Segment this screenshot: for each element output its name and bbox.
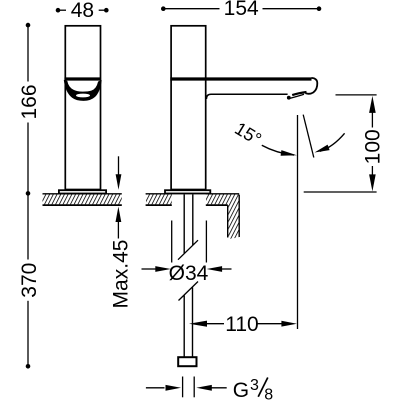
front view base plate [59, 190, 106, 193]
15 degree detail vertical line [297, 115, 299, 329]
svg-text:370: 370 [18, 263, 41, 298]
15 degree left leader arrow [262, 145, 294, 155]
side view countertop hatch right L [206, 194, 239, 239]
svg-text:3: 3 [250, 377, 259, 394]
front view spout bowl highlight [76, 94, 90, 98]
supply pipe upper [183, 194, 185, 253]
front view spout band [64, 77, 101, 80]
supply hose lower [183, 295, 185, 357]
front view countertop hatch [43, 194, 122, 204]
dimension G 3/8 ticks [182, 377, 184, 398]
svg-text:100: 100 [362, 129, 385, 164]
dimension 154 [161, 6, 166, 11]
side view aerator leaf [292, 92, 306, 95]
side view spout tip [305, 78, 317, 94]
dimension 100 extension lines [336, 94, 377, 96]
dimension 110 [189, 321, 207, 327]
dimension D34 extension lines [171, 221, 173, 263]
pipe break slash upper [178, 240, 198, 260]
dimension 166 [26, 23, 31, 28]
svg-text:8: 8 [264, 387, 273, 400]
svg-text:Ø34: Ø34 [169, 262, 209, 285]
svg-text:110: 110 [225, 313, 258, 336]
hose end nut [178, 357, 196, 366]
side view base plate [165, 190, 210, 193]
svg-text:G: G [233, 379, 249, 400]
dimension 370 [26, 364, 31, 369]
svg-text:Max.45: Max.45 [109, 240, 132, 309]
dimension 48 [56, 8, 61, 13]
side view spout band and arm top [170, 77, 311, 80]
dimension G 3/8 arrows [146, 387, 165, 389]
pipe break slash lower [179, 282, 199, 301]
svg-text:166: 166 [18, 84, 41, 119]
side view countertop hatch left [146, 194, 172, 204]
dimension Max.45 lower arrow and text [116, 207, 122, 222]
dimension D34 arrows [142, 268, 157, 270]
dimension 100 [369, 96, 376, 113]
15 degree right leader arrow [320, 133, 345, 151]
front view body [65, 26, 100, 190]
svg-text:154: 154 [224, 0, 259, 20]
15 degree tilted line [303, 115, 314, 158]
side view body [171, 26, 206, 190]
dimension Max.45 upper arrow [118, 156, 120, 176]
svg-text:48: 48 [71, 0, 94, 22]
front view spout bowl [65, 81, 102, 101]
side view arm underside [206, 94, 287, 99]
